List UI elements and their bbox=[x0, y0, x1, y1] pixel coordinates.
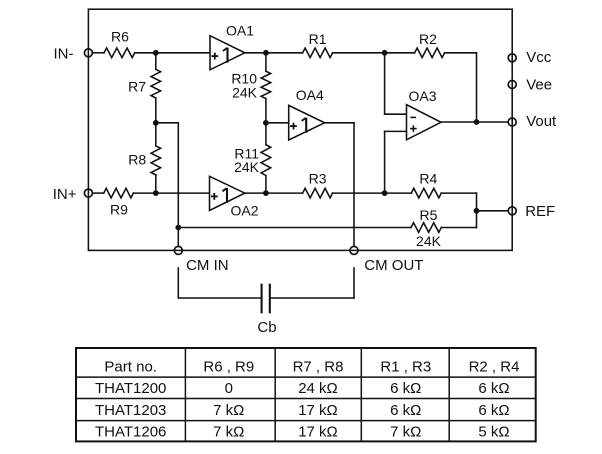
svg-text:Cb: Cb bbox=[257, 319, 276, 336]
wire OA1 output node down to R10 bbox=[265, 53, 267, 71]
svg-text:R7: R7 bbox=[128, 78, 146, 94]
svg-text:IN+: IN+ bbox=[53, 186, 77, 203]
terminal IN- bbox=[84, 49, 92, 57]
svg-text:Vout: Vout bbox=[526, 113, 557, 130]
wire CM IN pin down to Cb bbox=[177, 268, 179, 298]
capacitor Cb bbox=[261, 285, 263, 313]
svg-text:7 kΩ: 7 kΩ bbox=[213, 424, 244, 441]
op-amp OA3 plus symbol bbox=[410, 128, 417, 130]
op-amp OA3 bbox=[407, 105, 442, 140]
svg-text:OA4: OA4 bbox=[296, 87, 324, 103]
svg-text:R6: R6 bbox=[111, 29, 129, 45]
svg-text:7 kΩ: 7 kΩ bbox=[213, 402, 244, 419]
svg-text:OA3: OA3 bbox=[408, 88, 436, 104]
svg-text:R5: R5 bbox=[420, 207, 438, 223]
wire R2 to corner bbox=[445, 52, 477, 54]
svg-text:0: 0 bbox=[225, 380, 233, 397]
wire R1 to R2 bbox=[333, 52, 415, 54]
parts table bbox=[76, 348, 536, 441]
wire into OA3 non-inverting input bbox=[385, 130, 407, 132]
wire R10 to OA4 input node bbox=[265, 99, 267, 123]
wire OA4 output bbox=[325, 122, 354, 124]
node R9 / R8 junction bbox=[153, 190, 159, 196]
node R4 / R5 / REF junction bbox=[474, 208, 480, 214]
svg-text:7 kΩ: 7 kΩ bbox=[390, 424, 421, 441]
wire up to CM OUT pin bbox=[353, 268, 355, 298]
wire R5 to riser bbox=[441, 227, 476, 229]
svg-text:17 kΩ: 17 kΩ bbox=[298, 424, 338, 441]
svg-text:R7 , R8: R7 , R8 bbox=[293, 358, 344, 375]
svg-text:CM IN: CM IN bbox=[186, 257, 229, 274]
node IN- / R6 / R7 junction bbox=[153, 50, 159, 56]
op-amp OA1 bbox=[210, 36, 245, 70]
node OA1 output / R1 / R10 junction bbox=[263, 50, 269, 56]
svg-text:R2: R2 bbox=[419, 31, 437, 47]
svg-text:R4: R4 bbox=[419, 171, 437, 187]
svg-text:5 kΩ: 5 kΩ bbox=[478, 424, 509, 441]
wire OA3 output to Vout bbox=[441, 121, 508, 123]
wire CM IN node to R5 bbox=[178, 227, 411, 229]
svg-text:Part no.: Part no. bbox=[104, 358, 157, 375]
svg-text:R8: R8 bbox=[128, 152, 146, 168]
svg-text:R1: R1 bbox=[309, 31, 327, 47]
svg-text:6 kΩ: 6 kΩ bbox=[390, 380, 421, 397]
wire Cb right plate to CM OUT bbox=[270, 297, 354, 299]
svg-text:R3: R3 bbox=[309, 170, 327, 186]
svg-text:IN-: IN- bbox=[54, 46, 74, 63]
resistor R8 bbox=[151, 146, 161, 175]
svg-text:OA1: OA1 bbox=[226, 23, 254, 39]
parts table column lines bbox=[184, 348, 186, 441]
svg-text:24K: 24K bbox=[416, 233, 442, 249]
node R3 / R4 / OA3 non-inverting junction bbox=[382, 190, 388, 196]
svg-text:6 kΩ: 6 kΩ bbox=[478, 402, 509, 419]
wire REF node to REF terminal bbox=[477, 210, 509, 212]
wire IN+ to R9 bbox=[92, 192, 103, 194]
wire OA4 output down to CM OUT bbox=[353, 123, 355, 247]
op-amp OA4 bbox=[289, 105, 325, 140]
svg-text:R2 , R4: R2 , R4 bbox=[469, 358, 520, 375]
wire OA1 output to R1 bbox=[245, 52, 303, 54]
svg-text:THAT1206: THAT1206 bbox=[95, 424, 166, 441]
node R10 / R11 / OA4 input junction bbox=[263, 120, 269, 126]
wire R9 to OA2 input bbox=[133, 192, 209, 194]
resistor R10 bbox=[261, 71, 271, 98]
parts table row lines bbox=[76, 376, 536, 378]
svg-text:R6 , R9: R6 , R9 bbox=[203, 358, 254, 375]
node OA3 output / R2 junction bbox=[474, 119, 480, 125]
IC boundary box bbox=[88, 9, 512, 250]
node OA2 output / R3 / R11 junction bbox=[263, 190, 269, 196]
resistor R5 bbox=[411, 223, 441, 233]
resistor R7 bbox=[151, 69, 161, 98]
wire node to OA4 input bbox=[266, 122, 289, 124]
wire into OA3 inverting input bbox=[385, 113, 407, 115]
wire R5 riser to REF node bbox=[476, 211, 478, 228]
svg-text:24K: 24K bbox=[232, 85, 258, 101]
terminal CM OUT bbox=[350, 246, 358, 254]
terminal Vee bbox=[508, 81, 516, 89]
resistor R2 bbox=[415, 48, 445, 58]
op-amp OA3 minus symbol bbox=[410, 116, 416, 118]
terminal Vcc bbox=[508, 54, 516, 62]
resistor R9 bbox=[104, 188, 134, 198]
svg-text:24 kΩ: 24 kΩ bbox=[298, 380, 338, 397]
wire R6 to OA1 input bbox=[135, 52, 210, 54]
wire IN- node down to R7 bbox=[155, 53, 157, 70]
svg-text:CM OUT: CM OUT bbox=[364, 257, 423, 274]
terminal CM IN bbox=[174, 246, 182, 254]
svg-text:THAT1200: THAT1200 bbox=[95, 380, 166, 397]
op-amp OA2 bbox=[210, 176, 245, 210]
wire center-tap to CM IN drop bbox=[156, 122, 179, 124]
wire R1/R2 node down to OA3 inverting input bbox=[384, 53, 386, 114]
wire OA2 output to R3 bbox=[245, 192, 303, 194]
wire OA3 non-inverting input down to R3/R4 node bbox=[384, 131, 386, 193]
resistor R6 bbox=[104, 48, 135, 58]
wire R7 to center-tap node bbox=[155, 98, 157, 146]
terminal REF bbox=[508, 207, 516, 215]
svg-text:R1 , R3: R1 , R3 bbox=[380, 358, 431, 375]
wire CM IN vertical drop bbox=[177, 123, 179, 247]
svg-text:6 kΩ: 6 kΩ bbox=[390, 402, 421, 419]
svg-text:17 kΩ: 17 kΩ bbox=[298, 402, 338, 419]
wire IN- to R6 bbox=[92, 52, 104, 54]
svg-text:REF: REF bbox=[525, 203, 555, 220]
wire R4 corner down to REF node bbox=[476, 193, 478, 211]
svg-text:Vcc: Vcc bbox=[526, 49, 552, 66]
wire to Cb left plate bbox=[178, 297, 261, 299]
svg-text:OA2: OA2 bbox=[230, 203, 258, 219]
label OA1 gain +1 bbox=[211, 48, 227, 63]
svg-text:Vee: Vee bbox=[526, 77, 552, 94]
terminal Vout bbox=[508, 118, 516, 126]
node CM IN / R5 junction bbox=[175, 225, 181, 231]
label OA2 gain +1 bbox=[211, 188, 227, 203]
wire R3 to R4 bbox=[333, 192, 412, 194]
wire R4 to corner bbox=[441, 192, 476, 194]
parts table outer border bbox=[76, 348, 536, 441]
wire OA4 input node down to R11 bbox=[265, 123, 267, 145]
wire R2 corner down to OA3 output bbox=[476, 53, 478, 122]
wire R11 to OA2 output node bbox=[265, 176, 267, 194]
label OA4 gain +1 bbox=[290, 118, 306, 133]
svg-text:24K: 24K bbox=[234, 159, 260, 175]
svg-text:R9: R9 bbox=[110, 202, 128, 218]
terminal IN+ bbox=[84, 189, 92, 197]
svg-text:THAT1203: THAT1203 bbox=[95, 402, 166, 419]
resistor R4 bbox=[411, 188, 441, 198]
resistor R1 bbox=[303, 48, 333, 58]
svg-text:6 kΩ: 6 kΩ bbox=[478, 380, 509, 397]
node R7 / R8 center tap bbox=[153, 120, 159, 126]
resistor R11 bbox=[261, 145, 271, 176]
resistor R3 bbox=[303, 188, 333, 198]
wire R8 to IN+ line bbox=[155, 175, 157, 193]
node R1 / R2 / OA3 inverting junction bbox=[382, 50, 388, 56]
